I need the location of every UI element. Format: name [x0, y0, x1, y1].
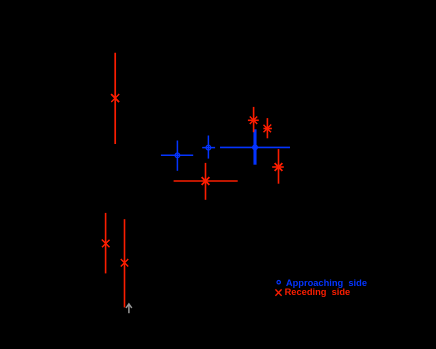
data point R7 (receding) [121, 219, 129, 307]
data point B2 (approaching) [202, 136, 215, 159]
data point R2 (receding) [248, 107, 259, 132]
data point B1 (approaching) [161, 141, 193, 171]
data point R6 (receding) [102, 213, 110, 274]
gray upper-limit arrow [126, 304, 132, 313]
data point R3 (receding) [263, 118, 272, 138]
legend marker cross (receding) [275, 289, 281, 295]
legend text receding [285, 287, 351, 297]
data point R4 (receding) [272, 149, 284, 184]
data point B3 (approaching, wide error bar) [220, 129, 290, 164]
legend text approaching [286, 278, 367, 288]
data point R1 (receding, long error bar) [111, 53, 119, 144]
legend marker circle (approaching) [277, 281, 280, 284]
data point R5 (receding, wide cross) [174, 163, 238, 200]
